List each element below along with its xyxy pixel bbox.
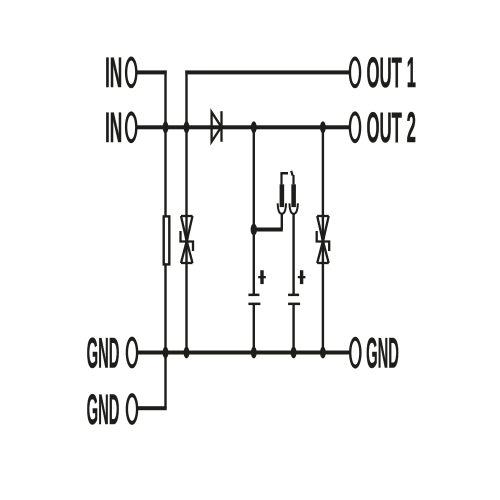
wire OUT1 line	[185, 70, 349, 74]
junction dot GND at TVS1 branch	[184, 347, 190, 359]
wire row2 IN-OUT2 line	[137, 125, 350, 129]
svg-text:GND: GND	[87, 386, 120, 434]
wire vertical TVS1 branch	[185, 70, 187, 354]
suppressor diode TVS2	[317, 216, 330, 263]
terminal GND2	[126, 393, 139, 425]
suppressor diode TVS1	[181, 216, 194, 263]
svg-text:GND: GND	[87, 330, 120, 378]
junction dot row2 at TVS1 branch	[184, 121, 190, 133]
wire GND2 riser	[164, 353, 166, 409]
terminal OUT1	[349, 57, 362, 89]
junction dot node plug P1	[251, 224, 257, 236]
plug contact P1 (pin and socket)	[278, 172, 288, 230]
wire GND2 horizontal	[138, 406, 167, 410]
resistor R1	[164, 216, 170, 264]
junction dot row2 at resistor branch	[163, 121, 169, 133]
terminal IN1	[125, 57, 138, 89]
wire vertical capacitor C1 branch upper	[253, 126, 255, 294]
svg-text:IN: IN	[105, 49, 122, 97]
wire vertical capacitor C1 branch lower	[253, 304, 255, 354]
junction dot GND at C1 branch	[251, 347, 257, 359]
junction dot row2 at C1 branch	[251, 121, 257, 133]
wire vertical TVS2 branch	[322, 126, 324, 353]
junction dot GND at TVS2 branch	[320, 347, 326, 359]
terminal OUT2	[349, 111, 362, 143]
svg-text:GND: GND	[366, 330, 399, 378]
terminal IN2	[125, 111, 138, 143]
wire vertical resistor branch	[164, 70, 166, 354]
svg-text:OUT 1: OUT 1	[367, 49, 416, 97]
wire GND bus	[138, 351, 350, 355]
capacitor C2	[288, 270, 305, 305]
plug contact P2 (pin and socket)	[289, 171, 297, 295]
wire plug P1 to node	[253, 228, 283, 232]
terminal GND1	[126, 337, 139, 369]
junction dot GND at C2 branch	[291, 347, 297, 359]
svg-text:IN: IN	[105, 104, 122, 152]
capacitor C1	[248, 270, 265, 305]
terminal GND right	[349, 337, 362, 369]
junction dot GND at resistor branch	[163, 347, 169, 359]
junction dot row2 at TVS2 branch	[320, 121, 326, 133]
svg-text:OUT 2: OUT 2	[367, 104, 416, 152]
wire IN1 horizontal	[137, 70, 167, 74]
wire C2 branch lower	[292, 304, 294, 354]
diode D1	[212, 111, 222, 142]
